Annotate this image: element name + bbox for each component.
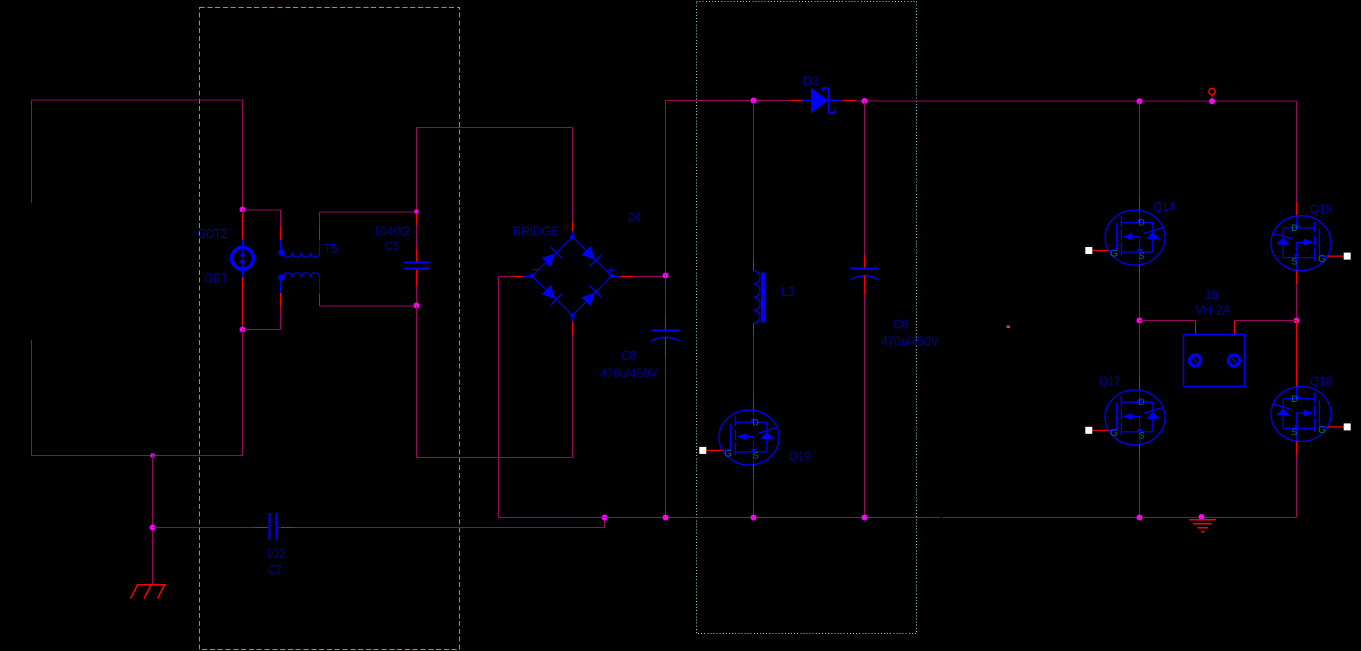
- wire: [31, 340, 33, 455]
- wire: [842, 100, 856, 102]
- capacitor C5: [404, 262, 429, 270]
- wire: [416, 306, 418, 458]
- wire: [666, 100, 791, 102]
- wire: [665, 357, 667, 518]
- wire: [1235, 320, 1297, 322]
- wire: [1296, 202, 1298, 216]
- capacitor C6: [851, 268, 879, 280]
- capacitor C8: [652, 330, 680, 342]
- wire: [753, 324, 755, 336]
- wire: [856, 100, 1297, 102]
- wire: [319, 240, 321, 253]
- wire: [319, 278, 321, 295]
- svg-text:S: S: [1291, 427, 1297, 437]
- capacitor C7: [267, 513, 281, 540]
- wire: [242, 100, 244, 210]
- junction: [602, 515, 608, 521]
- wire: [243, 209, 281, 211]
- svg-text:D: D: [1138, 217, 1145, 227]
- wire: [280, 226, 282, 240]
- svg-text:C7: C7: [269, 562, 283, 577]
- wire: [417, 457, 573, 459]
- svg-text:L3: L3: [781, 284, 795, 299]
- wire: [572, 222, 574, 231]
- transistor Q17 (N-MOSFET): [1085, 390, 1165, 445]
- junction: [1209, 98, 1215, 104]
- wire: [416, 249, 418, 262]
- svg-text:GDT: GDT: [205, 271, 228, 286]
- wire: [1296, 101, 1298, 202]
- wire: [604, 518, 606, 528]
- junction: [1199, 514, 1205, 520]
- svg-text:C5: C5: [385, 239, 400, 254]
- svg-text:Q15: Q15: [1310, 202, 1332, 217]
- junction: [414, 303, 420, 309]
- junction: [150, 525, 156, 531]
- transistor Q15 (N-MOSFET, mirrored): [1271, 216, 1351, 271]
- node pad: [415, 210, 419, 214]
- svg-text:Q19: Q19: [789, 449, 812, 464]
- wire: [943, 517, 1297, 519]
- svg-text:S: S: [1139, 251, 1145, 261]
- surge arrester GDT (GDT2): [232, 247, 254, 269]
- wire: [1296, 442, 1298, 456]
- wire: [242, 214, 244, 240]
- junction: [663, 515, 669, 521]
- wire: [416, 214, 418, 226]
- svg-text:G: G: [724, 448, 732, 459]
- wire: [281, 527, 294, 529]
- wire: [864, 101, 866, 255]
- wire: [753, 336, 755, 399]
- wire: [499, 517, 941, 519]
- wire: [242, 277, 244, 325]
- wire: [498, 277, 500, 518]
- wire: [634, 276, 666, 278]
- junction: [751, 515, 757, 521]
- svg-text:G: G: [1318, 425, 1326, 436]
- wire: [31, 99, 243, 101]
- wire: [665, 317, 667, 330]
- junction: [1137, 318, 1143, 324]
- wire: [280, 278, 282, 294]
- transistor Q18 (N-MOSFET, mirrored): [1271, 387, 1351, 442]
- svg-text:470u/450V: 470u/450V: [881, 334, 939, 349]
- wire: [620, 276, 634, 278]
- transistor Q14 (N-MOSFET): [1085, 210, 1165, 265]
- wire: [31, 455, 243, 457]
- svg-text:S: S: [1291, 256, 1297, 266]
- wire: [864, 276, 866, 295]
- wire: [242, 269, 244, 277]
- junction: [1294, 318, 1300, 324]
- wire: [1296, 455, 1298, 518]
- wire: [242, 210, 244, 214]
- wire: [417, 127, 573, 129]
- junction: [151, 454, 155, 458]
- wire: [280, 240, 282, 251]
- wire: [320, 211, 417, 213]
- wire: [1296, 284, 1298, 321]
- svg-text:D: D: [1291, 394, 1298, 404]
- junction: [751, 98, 757, 104]
- wire: [1211, 95, 1213, 102]
- terminal (open circle): [1209, 88, 1215, 94]
- PFC stage boundary box (cyan dotted): [697, 2, 917, 634]
- connector J6: [1184, 335, 1245, 387]
- svg-text:GDT2: GDT2: [198, 226, 228, 241]
- wire: [1296, 270, 1298, 284]
- junction: [862, 98, 868, 104]
- svg-text:102: 102: [266, 546, 286, 561]
- svg-text:Q17: Q17: [1099, 374, 1121, 389]
- wire: [499, 276, 515, 278]
- wire: [612, 276, 621, 278]
- svg-text:D: D: [752, 417, 759, 427]
- wire: [753, 259, 755, 271]
- wire: [572, 128, 574, 223]
- wire: [254, 527, 267, 529]
- wire: [523, 276, 532, 278]
- wire: [1139, 265, 1141, 278]
- wire: [416, 286, 418, 306]
- wire: [665, 337, 667, 357]
- wire: [864, 255, 866, 268]
- wire: [1139, 321, 1141, 378]
- svg-text:D: D: [1291, 223, 1298, 233]
- diode D3 (schottky): [802, 88, 842, 114]
- wire: [1234, 321, 1236, 335]
- wire: [416, 225, 418, 249]
- junction: [862, 515, 868, 521]
- wire: [153, 527, 255, 529]
- wire: [1139, 377, 1141, 390]
- wire: [416, 270, 418, 287]
- wire: [572, 322, 574, 335]
- wire: [864, 294, 866, 518]
- wire: [1139, 197, 1141, 210]
- svg-text:G: G: [1318, 254, 1326, 265]
- wire: [294, 527, 605, 529]
- wire: [152, 455, 154, 584]
- svg-text:Q18: Q18: [1310, 374, 1332, 389]
- wire: [31, 100, 33, 204]
- wire: [1296, 321, 1298, 388]
- wire: [1195, 321, 1197, 335]
- junction: [663, 273, 669, 279]
- wire: [242, 240, 244, 248]
- svg-text:Q14: Q14: [1154, 199, 1175, 214]
- transistor Q19 (N-MOSFET): [699, 410, 779, 465]
- wire: [280, 306, 282, 330]
- junction: [1137, 98, 1143, 104]
- wire: [572, 335, 574, 458]
- svg-text:S: S: [753, 451, 759, 461]
- junction: [240, 327, 246, 333]
- wire: [320, 305, 417, 307]
- bridge rectifier D4: [530, 235, 615, 318]
- svg-text:104/X2: 104/X2: [374, 224, 411, 239]
- wire: [753, 479, 755, 518]
- junction: [1137, 515, 1143, 521]
- wire: [242, 330, 244, 456]
- wire: [1139, 101, 1141, 198]
- EMI filter boundary box (green dashed): [200, 8, 460, 650]
- wire: [280, 210, 282, 226]
- svg-text:S: S: [1139, 431, 1145, 441]
- svg-text:D: D: [1138, 397, 1145, 407]
- chassis ground: [131, 585, 167, 599]
- wire: [1139, 445, 1141, 458]
- wire: [416, 127, 418, 210]
- wire: [753, 465, 755, 479]
- wire: [319, 226, 321, 240]
- wire: [1140, 320, 1196, 322]
- wire: [319, 212, 321, 226]
- wire: [514, 276, 523, 278]
- wire: [572, 231, 574, 237]
- svg-text:G: G: [1110, 428, 1118, 439]
- wire: [665, 101, 667, 317]
- node mark: [1007, 326, 1011, 329]
- wire: [1139, 458, 1141, 518]
- transformer T5 winding 2: [278, 273, 319, 281]
- wire: [790, 100, 802, 102]
- svg-text:C8: C8: [621, 348, 636, 363]
- wire: [319, 294, 321, 306]
- inductor L3: [754, 271, 766, 323]
- svg-text:D3: D3: [803, 74, 819, 89]
- earth ground: [1189, 520, 1216, 532]
- svg-text:VH-2A: VH-2A: [1196, 303, 1231, 318]
- wire: [243, 329, 281, 331]
- svg-text:C6: C6: [893, 317, 908, 332]
- wire: [753, 101, 755, 260]
- svg-text:J6: J6: [1204, 288, 1218, 303]
- svg-text:470u/450V: 470u/450V: [600, 366, 658, 381]
- wire: [753, 399, 755, 410]
- svg-text:D4: D4: [628, 210, 641, 225]
- svg-text:T5: T5: [324, 241, 338, 256]
- transformer T5 winding 1: [278, 249, 319, 257]
- svg-text:BRIDGE: BRIDGE: [513, 224, 560, 239]
- wire: [242, 325, 244, 330]
- junction: [240, 207, 246, 213]
- wire: [1139, 279, 1141, 321]
- svg-text:G: G: [1110, 248, 1118, 259]
- wire: [280, 293, 282, 306]
- wire: [572, 316, 574, 323]
